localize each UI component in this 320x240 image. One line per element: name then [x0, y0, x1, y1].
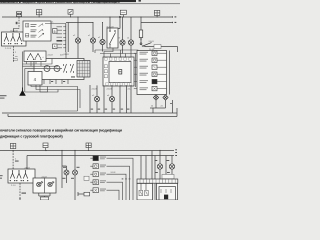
svg-text:Б: Б [54, 29, 56, 33]
svg-text:24-03: 24-03 [64, 54, 70, 56]
row 3 [25, 34, 28, 37]
margin text left [0, 95, 7, 99]
row 1 fuse [25, 24, 28, 27]
pin tick labels above bus [91, 109, 130, 110]
lamp circle x112 [109, 96, 114, 101]
bottom-left relay box [137, 183, 153, 200]
svg-text:л3: л3 [118, 38, 120, 40]
svg-text:ючатели сигналов поворотов и а: ючатели сигналов поворотов и аварийная с… [0, 128, 122, 132]
svg-text:24-03: 24-03 [111, 172, 116, 174]
svg-text:24-03: 24-03 [48, 54, 54, 56]
lamp wire x93 [90, 23, 95, 53]
harness wires right with nesting [107, 158, 134, 200]
bus 5 [0, 151, 174, 170]
connector symbol box top-left [16, 12, 21, 17]
lamp circle x97 [94, 96, 99, 101]
collector wires above relay block [95, 48, 138, 87]
small label box [84, 176, 89, 180]
svg-text:2 4 6 8: 2 4 6 8 [5, 48, 12, 50]
svg-text:24-: 24- [128, 89, 131, 91]
pin column [45, 21, 70, 58]
bus line 2 right segment [141, 22, 172, 24]
lamp wire x78 [75, 17, 80, 59]
lamp wire x102.5 [100, 23, 105, 52]
svg-text:24-03: 24-03 [92, 89, 98, 91]
dashed wire from connector down [18, 17, 20, 29]
diamond lamps under indicator box [153, 95, 168, 100]
paper background [0, 0, 180, 200]
header rule [0, 2, 180, 5]
connector grid [77, 61, 90, 78]
connector strip [137, 179, 178, 183]
svg-text:л5: л5 [92, 95, 94, 97]
connector box x70 [68, 10, 73, 17]
lamp x122.5 [120, 17, 125, 54]
wires x62 x66.5 x75 with lamps [62, 151, 75, 201]
bottom bus 3 [2, 112, 177, 114]
row 2 [31, 29, 37, 31]
label boxes B and A [53, 29, 57, 34]
relay block K [103, 57, 134, 86]
bottom-right relay box [157, 183, 178, 200]
fuse B2 [43, 143, 48, 151]
relay 4 box [28, 72, 42, 86]
row texts [100, 157, 106, 192]
bottom bus 4 [8, 116, 177, 118]
svg-text:24: 24 [161, 105, 163, 107]
legend box [23, 21, 51, 41]
svg-text:л1: л1 [88, 35, 90, 37]
right section verticals [141, 151, 172, 180]
connector box x123 [120, 10, 126, 17]
svg-text:24-03: 24-03 [107, 89, 113, 91]
bus line 2 left segment [66, 22, 93, 24]
fuse B3 [86, 143, 91, 151]
page header title (cut off) [0, 0, 180, 4]
cluster bottom stubs [38, 80, 68, 85]
lamps right bottom [157, 164, 174, 169]
wire below switch [12, 46, 14, 62]
indicator column (bottom) [93, 156, 98, 193]
ground symbol [19, 88, 26, 96]
bus line 1 [2, 16, 172, 18]
fuse F1 [36, 10, 41, 17]
svg-text:л2: л2 [73, 35, 75, 37]
svg-text:А: А [54, 45, 56, 49]
indicator column box (top diagram) [137, 45, 170, 95]
svg-text:24-: 24- [51, 21, 54, 23]
junction wire x120 [118, 16, 121, 28]
dashed drop to switch [12, 151, 14, 170]
fuse F2 right [154, 10, 159, 17]
repeater lamps two-cell box [33, 177, 56, 193]
svg-text:л6: л6 [107, 95, 109, 97]
fuse B1 [10, 143, 15, 148]
turn signal switch S1 [2, 29, 27, 50]
wires from relay block to bottom bus [90, 85, 131, 113]
nested wires around relay 4 [23, 52, 63, 89]
svg-text:л2: л2 [98, 37, 100, 39]
svg-text:дификация с грузовой платформо: дификация с грузовой платформой) [0, 134, 63, 138]
nested wires below relay 4 [25, 68, 80, 111]
svg-text:24: 24 [151, 105, 153, 107]
right side: resistor branch [139, 17, 177, 52]
wire between boxes [154, 183, 156, 200]
lamp x131 [128, 17, 133, 54]
wire below [19, 183, 21, 199]
bus continuation dots [39, 16, 177, 23]
hazard switch box [24, 51, 46, 66]
center cluster box [34, 54, 84, 79]
label box above strip [162, 174, 174, 178]
relay switch box [107, 17, 119, 48]
margin text bottom-left [0, 175, 3, 179]
bus 6 [27, 155, 174, 157]
turn switch (bottom) [8, 167, 35, 187]
bottom connector symbol [78, 192, 84, 196]
svg-text:24-03: 24-03 [149, 41, 155, 43]
svg-text:л4: л4 [127, 38, 129, 40]
